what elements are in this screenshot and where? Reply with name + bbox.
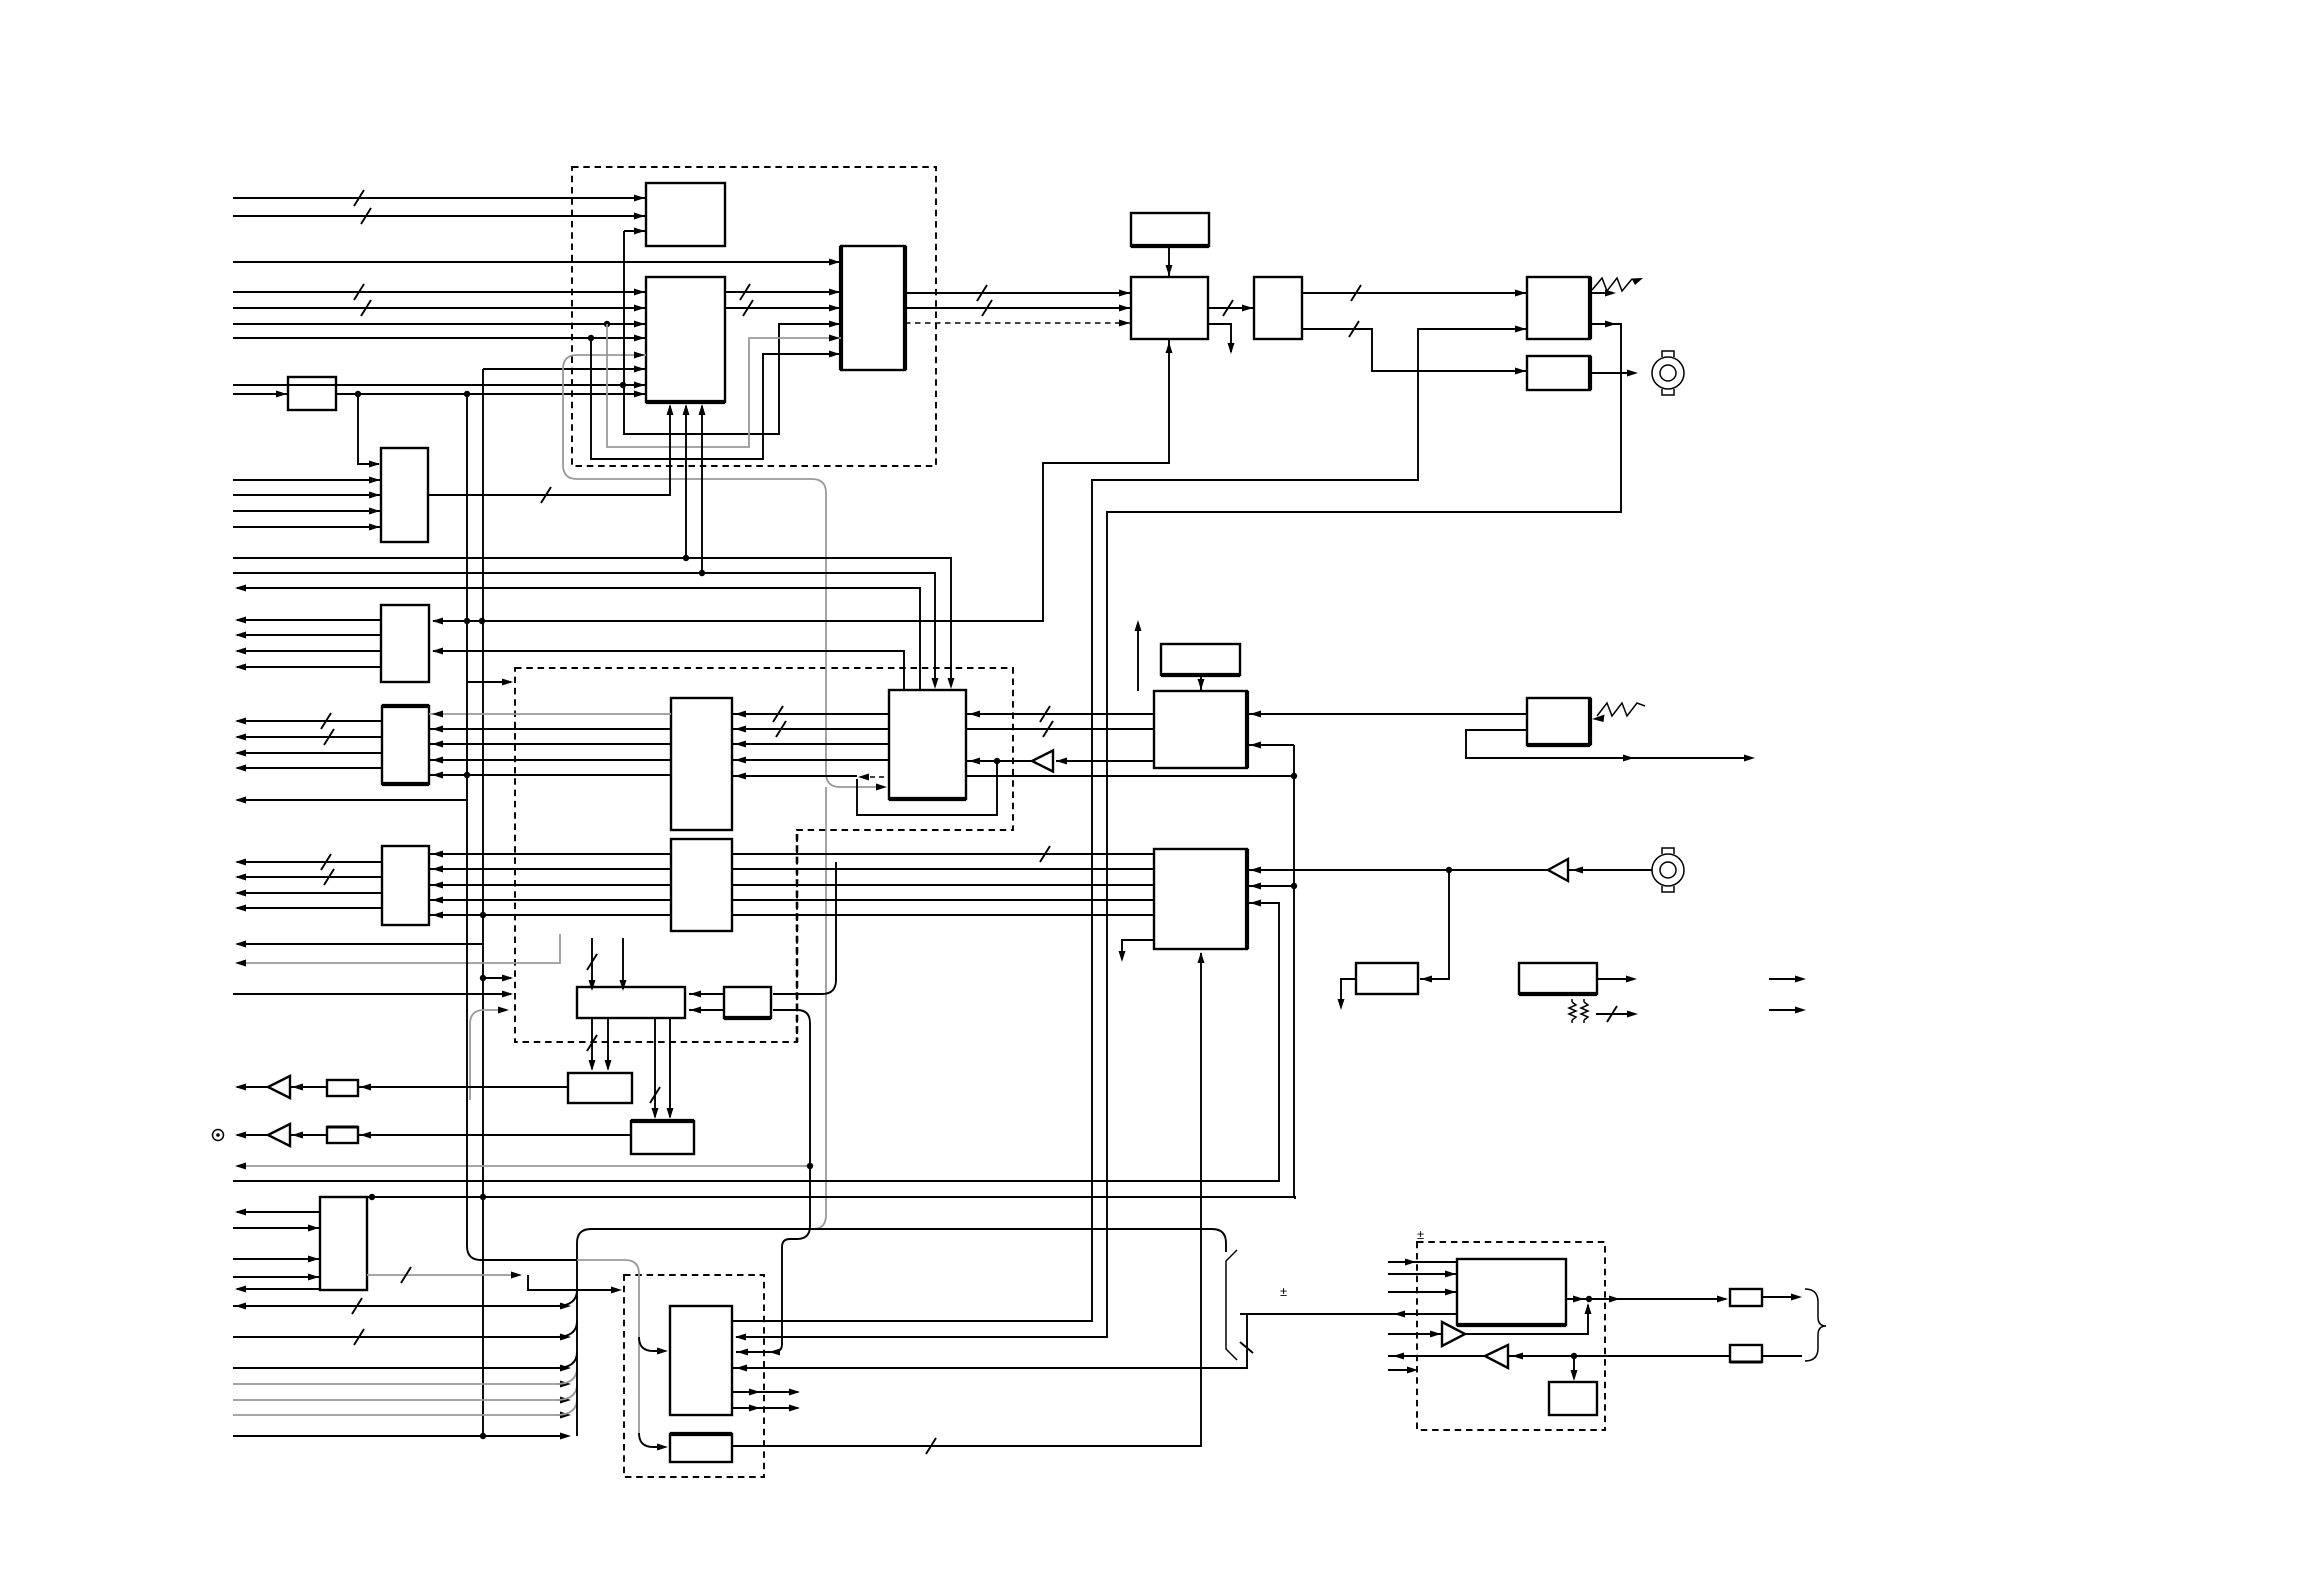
slash U20-U26 pin 1 bbox=[650, 1087, 660, 1103]
arrow down on U19 stub bbox=[1119, 951, 1126, 962]
bus slash on U1 line 2 bbox=[361, 208, 371, 224]
wrap wire riser to U3 input 3 bbox=[624, 231, 841, 434]
wire U15 to U19 bus 1 bbox=[732, 853, 1154, 855]
arrow into U9 bbox=[276, 391, 287, 398]
junction riser B at servo line 7 bbox=[480, 1433, 486, 1439]
wire U5 bottom feed from U11 net bbox=[433, 339, 1169, 621]
thick bottom edge of U2 bbox=[646, 400, 725, 404]
U12 left output 4 bbox=[237, 767, 382, 769]
arrow into U10 in 4 bbox=[369, 524, 380, 531]
thick top edge of FL2 bbox=[327, 1126, 358, 1129]
bus wire into U1 (line 2) bbox=[233, 215, 646, 217]
wire U15 to U13 input 3 bbox=[429, 884, 671, 886]
arrow Y1 to brace bbox=[1791, 1294, 1802, 1301]
arrow up into U2 bottom 1 bbox=[667, 404, 674, 415]
wire U14 to U16 line 4 bbox=[732, 759, 889, 761]
arrow output stub 2 bbox=[1795, 1007, 1806, 1014]
riser B (long vertical) bbox=[482, 369, 484, 1436]
U29 output wire pair 2 bbox=[732, 1407, 798, 1409]
slash U12 out 2 bbox=[324, 729, 334, 745]
junction U9 net to riser bbox=[464, 391, 470, 397]
slash on U10 output bbox=[541, 487, 551, 503]
IC U16 (DSP K2) bbox=[889, 690, 966, 799]
buffer A5 (right pointing) bbox=[1442, 1322, 1465, 1346]
arrow into FL2 bbox=[360, 1132, 371, 1139]
IC U9 (reset block) bbox=[288, 377, 336, 410]
wire U9 output to U2 bbox=[336, 393, 646, 395]
arrow into U29 left bbox=[657, 1348, 668, 1355]
arrow into buffer A3 bbox=[292, 1084, 303, 1091]
merge arc servo bus 2 bbox=[556, 1321, 577, 1337]
RCA jack J2 tabs bbox=[1662, 848, 1674, 892]
arrow U12 return bbox=[235, 797, 246, 804]
wire U20 bottom to U25 pin 1 bbox=[591, 1018, 593, 1069]
merge arc servo line 6 bbox=[556, 1399, 577, 1415]
thick bottom edge of U23 bbox=[1519, 992, 1597, 996]
buffer A1 (left pointing) bbox=[1032, 751, 1053, 772]
junction at 702/573 bbox=[699, 570, 705, 576]
dashed block boundary DB4 (output section) bbox=[1417, 1242, 1605, 1430]
junction riser B at 1197 bbox=[480, 1194, 486, 1200]
arrow into DB2 at 682 bbox=[502, 679, 513, 686]
wire tap 573 up to U2 bottom 3 bbox=[701, 406, 703, 573]
arrow left on upper return bbox=[235, 585, 246, 592]
IC U11 (driver H) bbox=[381, 605, 429, 682]
U12 left output 1 bbox=[237, 720, 382, 722]
arrow left servo bus 1 bbox=[235, 1303, 246, 1310]
arrow into U12 right 2 bbox=[432, 726, 443, 733]
arrow U13 return bbox=[235, 941, 246, 948]
thick top and bottom edges of U12 bbox=[382, 706, 429, 784]
arrow into U1 line 2 bbox=[634, 213, 645, 220]
dashed block boundary DB2 (middle section, L-shaped) bbox=[515, 668, 1013, 1042]
thick right edge of U7 bbox=[1588, 277, 1592, 339]
junction at U24 corner bbox=[369, 1194, 375, 1200]
arrow U23 output bbox=[1626, 976, 1637, 983]
thick right and bottom edges of U35 bbox=[1527, 698, 1590, 745]
bus wire U5 to U6 bbox=[1208, 307, 1254, 309]
IC U2 (main processor) bbox=[646, 277, 725, 402]
wire Y2 to buffer A6 bbox=[1508, 1355, 1730, 1357]
arrow into FL1 bbox=[360, 1084, 371, 1091]
output stub wire 1 bbox=[1769, 978, 1798, 980]
filter FL1 (audio L) bbox=[327, 1080, 358, 1096]
branch wire to U11 right input 2 bbox=[433, 651, 904, 690]
matching network Y2 bbox=[1730, 1345, 1762, 1362]
arrow U11 out 4 bbox=[235, 664, 246, 671]
RCA jack J1 outer bbox=[1652, 357, 1684, 389]
arrow into U30 left bbox=[657, 1444, 668, 1451]
IC U6 (filter) bbox=[1254, 277, 1302, 339]
wire U5 right stub down bbox=[1208, 324, 1231, 352]
wire U14 to U12 input 5 bbox=[429, 774, 671, 776]
arrow into U26 top 1 bbox=[652, 1108, 659, 1119]
feedback wire 1181 to U19 bbox=[233, 903, 1279, 1181]
stepped wire U24 to servo cable bbox=[528, 1275, 618, 1290]
slash U15-U19 bus 1 bbox=[1040, 846, 1050, 862]
arrow into U10 in 3 bbox=[369, 508, 380, 515]
junction riser A on U11 line bbox=[464, 618, 470, 624]
arrow into U25 top 1 bbox=[589, 1060, 596, 1071]
arrow into U3 input 4 bbox=[829, 335, 840, 342]
wire riser into U1 line 3 bbox=[624, 230, 646, 232]
slash U13 out 2 bbox=[324, 869, 334, 885]
arrow left on cable line bbox=[1394, 1311, 1405, 1318]
audio R output wire bbox=[237, 1134, 268, 1136]
thick top edge of U30 bbox=[670, 1432, 732, 1436]
arrow into U20 top 2 bbox=[620, 980, 627, 991]
arrow U13 out 3 bbox=[235, 890, 246, 897]
RCA jack J2 inner bbox=[1660, 862, 1676, 878]
arrow up into U19 bottom bbox=[1198, 952, 1205, 963]
arrow into U29 gray line inner bbox=[737, 1349, 748, 1356]
arrow DB4 stub 5 bbox=[1407, 1367, 1418, 1374]
arrow into U18 right input 1 bbox=[1250, 711, 1261, 718]
U22 output wire down bbox=[1341, 979, 1356, 1007]
slash U16-U18 line 1 bbox=[1040, 706, 1050, 722]
arrow into DB2 at 1008 bbox=[498, 1007, 509, 1014]
arrow on stepped wire bbox=[611, 1287, 622, 1294]
IC U25 (DAC U) bbox=[568, 1073, 632, 1103]
arrow into U3 input 5 bbox=[829, 351, 840, 358]
wire U15 to U13 input 1 bbox=[429, 853, 671, 855]
thick right edge of U18 bbox=[1245, 691, 1249, 768]
wire input to U9 bbox=[233, 393, 288, 395]
RCA jack J1 inner bbox=[1660, 365, 1676, 381]
slash on U3-U5 line 2 bbox=[982, 300, 992, 316]
IC U31 (RF amp X1) bbox=[1457, 1259, 1566, 1325]
thick bottom edge of U16 bbox=[889, 797, 966, 801]
wire tap 558 up to U2 bottom 2 bbox=[685, 406, 687, 558]
wire U14 row 5 to hook bbox=[732, 775, 857, 777]
DB4 input wire 2 bbox=[1388, 1273, 1457, 1275]
buffer A4 audio R bbox=[268, 1124, 290, 1146]
merge arc servo bus 1 bbox=[556, 1290, 577, 1306]
arrow audio R out bbox=[235, 1132, 246, 1139]
IC U23 (driver T) bbox=[1519, 963, 1597, 994]
gray wire U24 output right bbox=[367, 1274, 516, 1276]
arrow right servo bus 1 bbox=[560, 1303, 571, 1310]
U24 input wire 3 bbox=[233, 1276, 320, 1278]
arrow into U1 line 1 bbox=[634, 195, 645, 202]
bus wire U3 to U5 (line 2) bbox=[905, 307, 1131, 309]
arrow into U2 line 8 bbox=[634, 352, 645, 359]
arrow on U24 output gray bbox=[511, 1272, 522, 1279]
servo cable vertical bbox=[576, 1243, 578, 1436]
buffer A2 (left pointing) bbox=[1548, 859, 1568, 881]
arrow into U12 right 4 bbox=[432, 757, 443, 764]
wire U35 to U18 right input 1 bbox=[1249, 713, 1527, 715]
bus wire U3 to U5 (line 1) bbox=[905, 292, 1131, 294]
RCA jack J2 outer bbox=[1652, 854, 1684, 886]
arrow into U11 right input 1 bbox=[432, 618, 443, 625]
junction on U2 line 3 bbox=[604, 321, 610, 327]
wire X3 to U18 bbox=[1200, 675, 1202, 691]
arrow into U12 right 5 bbox=[432, 772, 443, 779]
arrow into U13 right 3 bbox=[432, 882, 443, 889]
IC U7 (output driver F) bbox=[1527, 277, 1590, 339]
junction on buffer output bbox=[994, 758, 1000, 764]
dashed wire U3 to U5 bbox=[905, 322, 1131, 324]
arrow U12 out 1 bbox=[235, 718, 246, 725]
slash U13 out 1 bbox=[321, 854, 331, 870]
IC U30 (motor driver R2) bbox=[670, 1434, 732, 1462]
riser 811 net to U29 bbox=[736, 1010, 810, 1352]
junction riser B at U13 line 5 bbox=[480, 912, 486, 918]
slash on U20 top 1 bbox=[587, 954, 597, 970]
arrow on dashed stub bbox=[858, 774, 869, 781]
arrow right servo bus 2 bbox=[560, 1334, 571, 1341]
arrow into U6 bbox=[1242, 305, 1253, 312]
arrow into U18 top bbox=[1198, 679, 1205, 690]
arrow into DB2 at 1000 bbox=[502, 991, 513, 998]
zigzag antenna symbol at U7 bbox=[1592, 278, 1632, 291]
wire U14 to U12 input 2 bbox=[429, 728, 671, 730]
wire tap down to U10 input bbox=[358, 394, 379, 464]
arrow U12 out 3 bbox=[235, 750, 246, 757]
servo line 5 (gray) bbox=[233, 1399, 565, 1401]
U23 output wire bbox=[1597, 978, 1630, 980]
thick right edge of U8 bbox=[1588, 356, 1592, 390]
wire down into U20 top 1 bbox=[591, 938, 593, 989]
bus wire U6 to U7 bbox=[1302, 292, 1527, 294]
IC U24 (key input V) bbox=[320, 1197, 367, 1290]
U19 left-bottom stub bbox=[1122, 940, 1154, 958]
arrow into U2 line 2 bbox=[634, 305, 645, 312]
arrow into U13 right 2 bbox=[432, 866, 443, 873]
U11 left output 1 bbox=[237, 619, 381, 621]
junction on U2 line 4 bbox=[588, 335, 594, 341]
buffer A6 (left pointing) bbox=[1485, 1345, 1508, 1368]
thick right edge of U19 bbox=[1245, 849, 1249, 949]
slash on U6-U7 wire bbox=[1351, 285, 1361, 301]
arrow pair 1 inner bbox=[749, 1389, 760, 1396]
arrow into U20 right 1 bbox=[690, 991, 701, 998]
wire U20 bottom to U26 pin 2 bbox=[669, 1018, 671, 1117]
cable fan-out bracket bbox=[1226, 1250, 1237, 1360]
arrow into U12 right 3 bbox=[432, 741, 443, 748]
arrows into U14 right edge bbox=[735, 711, 746, 718]
junction at 1294/904 bbox=[1291, 883, 1297, 889]
arrow up into U31 output junction bbox=[1585, 1303, 1592, 1314]
wire U15 to U19 line 3 bbox=[732, 884, 1154, 886]
junction riser A at U12 line 5 bbox=[464, 772, 470, 778]
IC U19 (A/V processor Q) bbox=[1154, 849, 1247, 949]
arrow into buffer A5 bbox=[1430, 1331, 1441, 1338]
slash on riser 1247 bbox=[1240, 1342, 1253, 1353]
arrow before junction bbox=[1573, 1296, 1584, 1303]
wire FL1 to buffer A3 bbox=[290, 1086, 327, 1088]
wire U15 to U13 input 4 bbox=[429, 899, 671, 901]
wire FL2 to buffer A4 bbox=[290, 1134, 327, 1136]
IC U3 (latch) bbox=[841, 246, 905, 370]
wire U29 input from output section riser bbox=[732, 1314, 1247, 1368]
arrow U24 out bbox=[235, 1209, 246, 1216]
U13 left output 4 bbox=[237, 907, 382, 909]
junction on return wire bbox=[1571, 1353, 1577, 1359]
U24 bottom output wire left bbox=[237, 1288, 320, 1290]
IC U12 (transceiver I) bbox=[382, 706, 429, 784]
DB4 input wire 1 bbox=[1388, 1261, 1457, 1263]
audio L output wire bbox=[237, 1086, 268, 1088]
arrow into DB2 at 978 bbox=[502, 975, 513, 982]
bus wire into U2 line 7 (long) bbox=[233, 384, 646, 386]
wire U14 to U12 input 3 bbox=[429, 743, 671, 745]
matching network Y1 bbox=[1730, 1289, 1762, 1306]
gray wire U14 to U12 input 1 bbox=[429, 713, 671, 715]
wire buffer A1 output to U16 bbox=[966, 760, 1032, 762]
arrow on A6 output bbox=[1393, 1353, 1404, 1360]
IC U22 (driver S) bbox=[1356, 963, 1418, 994]
slash on resistor stub bbox=[1607, 1006, 1617, 1022]
slash U20-U25 pin 1 bbox=[587, 1035, 597, 1051]
arrow into U24 in 1 bbox=[308, 1225, 319, 1232]
arrow U12 out 2 bbox=[235, 734, 246, 741]
branch curve into U29 left bbox=[639, 1337, 664, 1351]
wire U16 output to net node bbox=[966, 775, 1294, 777]
IC U29 (servo R) bbox=[670, 1306, 732, 1415]
slash U16-U18 line 2 bbox=[1043, 721, 1053, 737]
wire buffer A5 to junction bbox=[1465, 1305, 1588, 1334]
U31 output wire to Y1 bbox=[1565, 1298, 1726, 1300]
arrow U13 out 2 bbox=[235, 874, 246, 881]
wire U18 up stub bbox=[1137, 624, 1139, 691]
arrow into U3 line 1 bbox=[829, 289, 840, 296]
wire U18 output through buffer to U16 bbox=[1056, 760, 1154, 762]
U11 left output 4 bbox=[237, 666, 381, 668]
arrow into U5 line 1 bbox=[1119, 290, 1130, 297]
bus wire into U2 (line 2) bbox=[233, 307, 646, 309]
wire down into U20 top 2 bbox=[622, 938, 624, 989]
arrow right servo line 5 bbox=[560, 1397, 571, 1404]
slash U14-U16 bus 2 bbox=[776, 721, 786, 737]
wire into U3 top input bbox=[233, 261, 841, 263]
wire U15 to U19 line 5 bbox=[732, 914, 1154, 916]
arrow into U13 right 5 bbox=[432, 912, 443, 919]
gray net continuation down to servo crossbar bbox=[813, 787, 826, 1229]
arrow U11 out 2 bbox=[235, 632, 246, 639]
junction riser B at 978 bbox=[480, 975, 486, 981]
arrow DB4 in 2 bbox=[1445, 1271, 1456, 1278]
U10 input wire 1 bbox=[233, 479, 381, 481]
arrow into U22 right bbox=[1421, 976, 1432, 983]
U12 return wire bbox=[237, 799, 467, 801]
oscillator X2 (above U5) bbox=[1131, 213, 1209, 246]
arrow output stub 1 bbox=[1795, 976, 1806, 983]
arrow into U25 top 2 bbox=[605, 1060, 612, 1071]
junction on U31 output bbox=[1586, 1296, 1592, 1302]
slash on U3-U5 line 1 bbox=[977, 285, 987, 301]
arrow into U2 line 1 bbox=[634, 289, 645, 296]
wire U15 to U13 input 5 bbox=[429, 914, 671, 916]
arrow gray 1166 bbox=[235, 1163, 246, 1170]
arrow U12 out 4 bbox=[235, 765, 246, 772]
arrow gray return bbox=[235, 960, 246, 967]
junction riser 624 on line 385 bbox=[620, 382, 626, 388]
IC U8 (output driver G) bbox=[1527, 356, 1590, 390]
U12 left output 3 bbox=[237, 752, 382, 754]
gray hook wire into DB2 bbox=[470, 1010, 505, 1100]
arrow into U2 line 3 bbox=[634, 321, 645, 328]
arrow into U19 right 3 bbox=[1250, 900, 1261, 907]
arrow after junction bbox=[1609, 1296, 1620, 1303]
cable line into DB4 bbox=[1240, 1313, 1457, 1315]
wire J2 into buffer A2 bbox=[1568, 869, 1652, 871]
wire U14 to U12 input 4 bbox=[429, 759, 671, 761]
IC U5 (video encoder) bbox=[1131, 277, 1208, 339]
IC U21 (register O) bbox=[724, 987, 771, 1018]
gray wrap wire to U3 input 4 bbox=[607, 324, 841, 447]
RCA jack J1 tabs bbox=[1662, 351, 1674, 395]
wire jack J2 to U19 input 1 bbox=[1249, 869, 1548, 871]
bus wire into U2 (line 4) bbox=[233, 337, 646, 339]
slash servo bus 2 bbox=[354, 1329, 364, 1345]
U10 input wire 4 bbox=[233, 526, 381, 528]
merge arc servo line 5 bbox=[556, 1384, 577, 1400]
return wire from brace through Y2 bbox=[1762, 1355, 1802, 1357]
wire Y1 to brace bbox=[1762, 1296, 1796, 1298]
arrow into U18 right 2 bbox=[1250, 742, 1261, 749]
arrow into buffer A2 bbox=[1572, 867, 1583, 874]
arrow into U10 in 1 bbox=[369, 477, 380, 484]
bus wire into U1 (line 1) bbox=[233, 197, 646, 199]
U13 left output 2 bbox=[237, 876, 382, 878]
U12 left output 2 bbox=[237, 736, 382, 738]
slash servo bus 1 bbox=[352, 1298, 362, 1314]
arrow pair 2 outer bbox=[789, 1405, 800, 1412]
junction at 1449/870 bbox=[1446, 867, 1452, 873]
wire U20 bottom to U25 pin 2 bbox=[607, 1018, 609, 1069]
arrow into U3 top input bbox=[829, 259, 840, 266]
arrow into U19 right 2 bbox=[1250, 883, 1261, 890]
servo cable S-bend to drop 639 bbox=[577, 1260, 639, 1433]
wire buffer A6 output left bbox=[1388, 1355, 1485, 1357]
arrow down on U5 stub bbox=[1228, 343, 1235, 354]
arrow up into U2 bottom 3 bbox=[699, 404, 706, 415]
arrow into U16 right at 714 bbox=[969, 711, 980, 718]
wire riser B branch into DB2 bbox=[483, 977, 511, 979]
thick bottom edge of U21 bbox=[724, 1016, 771, 1020]
thick top edge of U26 bbox=[631, 1119, 694, 1123]
arrow on resistor stub bbox=[1627, 1011, 1638, 1018]
U24 input wire 1 bbox=[233, 1227, 320, 1229]
servo bus line 1 bbox=[233, 1305, 565, 1307]
dashed stub into U16 side bbox=[861, 776, 889, 778]
junction U9 net tap 1 bbox=[355, 391, 361, 397]
U10 input wire 2 bbox=[233, 494, 381, 496]
long wire upper return bbox=[237, 588, 920, 690]
arrow down into U34 bbox=[1571, 1370, 1578, 1381]
wire U21 to U20 link 2 bbox=[689, 1009, 724, 1011]
wire into U21 right from above bbox=[773, 862, 836, 994]
U13 left output 3 bbox=[237, 892, 382, 894]
arrow down into U16 top 1 bbox=[948, 678, 955, 689]
U10 input wire 3 bbox=[233, 510, 381, 512]
wire U26 to filter FL2 bbox=[358, 1134, 631, 1136]
riser A long vertical bbox=[467, 394, 577, 1260]
arrow into U5 line 2 bbox=[1119, 305, 1130, 312]
arrow on U8 output bbox=[1627, 370, 1638, 377]
slash U14-U16 bus 1 bbox=[773, 706, 783, 722]
arrow into U24 in 3 bbox=[308, 1274, 319, 1281]
wire U35 lower output bbox=[1466, 730, 1747, 758]
wire into buffer A5 bbox=[1388, 1333, 1442, 1335]
thick bottom edge of X2 bbox=[1131, 244, 1209, 248]
slash on U24 output bbox=[401, 1267, 411, 1283]
arrow into U3 line 2 bbox=[829, 305, 840, 312]
IC U34 (detector Z) bbox=[1549, 1382, 1597, 1415]
bus wire into U2 (line 3) bbox=[233, 323, 646, 325]
